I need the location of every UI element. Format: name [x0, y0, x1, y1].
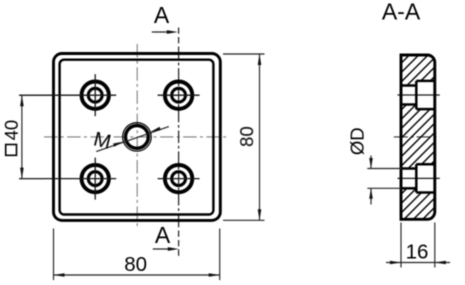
plate inner contour — [60, 60, 214, 215]
section arrow top — [152, 30, 178, 34]
svg-text:16: 16 — [406, 240, 429, 263]
center hole M thread — [123, 123, 152, 152]
section counterbore hole bottom — [401, 164, 435, 192]
svg-text:A: A — [154, 2, 170, 28]
svg-text:80: 80 — [236, 126, 257, 147]
M leader line — [96, 127, 169, 152]
plate outer contour — [54, 54, 221, 221]
counterbore hole top-left — [19, 74, 116, 116]
dimension 80 right — [223, 54, 265, 220]
dimension 80 bottom — [54, 229, 220, 281]
svg-text:ØD: ØD — [347, 127, 368, 155]
dimension square-40 left — [19, 95, 45, 178]
section body outline — [401, 55, 435, 219]
counterbore hole bottom-right — [158, 165, 200, 192]
section mid centerline — [394, 136, 440, 138]
svg-text:40: 40 — [1, 120, 22, 141]
section hatching — [400, 54, 437, 221]
dimension 16 — [386, 223, 450, 268]
counterbore hole top-right — [158, 82, 200, 109]
section hole bottom centerline — [398, 177, 440, 179]
svg-text:80: 80 — [124, 253, 147, 276]
section arrow bottom — [153, 247, 179, 251]
counterbore hole bottom-left — [19, 158, 116, 200]
plate vertical centerline — [136, 44, 138, 226]
plate horizontal centerline — [44, 136, 226, 138]
section counterbore hole top — [401, 81, 435, 109]
section cut line A-A — [178, 28, 180, 54]
svg-text:A: A — [155, 222, 171, 248]
dim text square symbol — [6, 145, 17, 156]
section hole top centerline — [398, 94, 440, 96]
svg-text:A-A: A-A — [382, 0, 421, 25]
dimension OD — [367, 156, 401, 205]
